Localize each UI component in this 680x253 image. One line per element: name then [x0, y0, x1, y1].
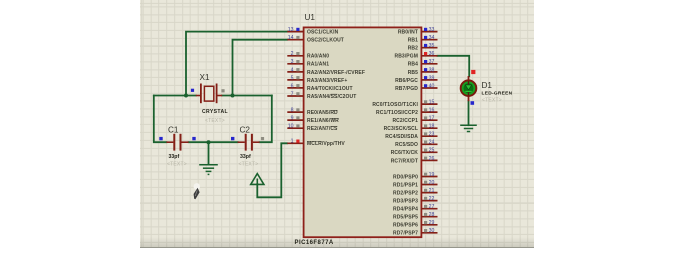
pin 34 (RB1) right side	[408, 35, 438, 44]
power terminal (VCC arrow on MCLR net)	[251, 174, 264, 185]
svg-text:RD6/PSP6: RD6/PSP6	[393, 223, 418, 229]
svg-text:<TEXT>: <TEXT>	[482, 98, 502, 104]
wire crystal left rail horizontal	[154, 95, 196, 97]
node marker: LED anode node marker	[471, 70, 475, 74]
LED D1 (LED-GREEN)	[461, 76, 477, 101]
pin 8 (RE0/AN5/RD) left side	[287, 108, 338, 117]
svg-text:CRYSTAL: CRYSTAL	[202, 109, 228, 115]
wire MCLR to power	[257, 143, 287, 197]
pin 39 (RB6/PGC) right side	[395, 75, 437, 84]
pin 18 (RC3/SCK/SCL) right side	[384, 124, 438, 133]
svg-text:RC3/SCK/SCL: RC3/SCK/SCL	[384, 126, 418, 132]
wire pin14 OSC2 to crystal right	[233, 40, 288, 96]
svg-text:21: 21	[429, 188, 435, 194]
svg-text:OSC1/CLKIN: OSC1/CLKIN	[307, 30, 339, 36]
pin 10 (RE2/AN7/CS) left side	[287, 124, 338, 133]
pin 28 (RD5/PSP5) right side	[393, 212, 437, 221]
pin 3 (RA1/AN1) left side	[287, 59, 329, 67]
pin 26 (RC7/RX/DT) right side	[391, 156, 438, 165]
svg-text:RC5/SDO: RC5/SDO	[395, 142, 418, 148]
svg-text:RB3/PGM: RB3/PGM	[395, 54, 418, 60]
junction node: pin13/crystal-left	[184, 94, 188, 98]
svg-text:9: 9	[291, 116, 294, 122]
svg-text:37: 37	[429, 59, 435, 65]
svg-text:30: 30	[429, 228, 435, 234]
pin 25 (RC6/TX/CK) right side	[391, 148, 438, 157]
svg-text:RD4/PSP4: RD4/PSP4	[393, 207, 418, 213]
ground symbol (LED)	[460, 125, 477, 131]
pin 22 (RD3/PSP3) right side	[393, 196, 437, 205]
svg-text:RC0/T1OSO/T1CKI: RC0/T1OSO/T1CKI	[372, 102, 418, 108]
svg-text:RD1/PSP1: RD1/PSP1	[393, 182, 418, 188]
svg-text:RD2/PSP2: RD2/PSP2	[393, 191, 418, 197]
svg-text:8: 8	[291, 108, 294, 114]
pin 36 (RB3/PGM) right side	[395, 51, 438, 60]
pin 7 (RA5/AN4/SS/C2OUT) left side	[287, 91, 356, 100]
svg-text:RB0/INT: RB0/INT	[398, 30, 418, 36]
svg-text:19: 19	[429, 172, 435, 178]
junction node: C1-C2/ground	[207, 140, 211, 144]
svg-text:20: 20	[429, 180, 435, 186]
svg-text:<TEXT>: <TEXT>	[205, 118, 225, 124]
svg-text:RB6/PGC: RB6/PGC	[395, 78, 418, 84]
svg-text:14: 14	[288, 35, 294, 41]
pin 1 (MCLR/Vpp/THV) left side	[287, 139, 345, 148]
svg-text:RB2: RB2	[408, 46, 418, 52]
svg-text:RC2/CCP1: RC2/CCP1	[392, 118, 418, 124]
sheet bottom shadow	[140, 237, 535, 247]
node marker: crystal left node marker	[191, 89, 194, 92]
svg-text:X1: X1	[200, 73, 210, 82]
pin 20 (RD1/PSP1) right side	[393, 180, 437, 189]
svg-text:RD0/PSP0: RD0/PSP0	[393, 174, 418, 180]
wire pin13 OSC1 to crystal left	[186, 32, 287, 96]
pin 17 (RC2/CCP1) right side	[392, 116, 437, 125]
svg-text:OSC2/CLKOUT: OSC2/CLKOUT	[307, 38, 344, 44]
svg-text:D1: D1	[482, 81, 493, 90]
node marker: C1 left node marker	[159, 137, 162, 140]
node marker: crystal right node marker	[221, 89, 224, 92]
wire crystal right rail horizontal	[222, 95, 272, 97]
svg-text:RC4/SDI/SDA: RC4/SDI/SDA	[385, 134, 418, 140]
svg-text:RD7/PSP7: RD7/PSP7	[393, 231, 418, 237]
node marker: C2 right node marker	[261, 137, 264, 140]
pin 14 (OSC2/CLKOUT) left side	[287, 35, 344, 44]
svg-text:22: 22	[429, 196, 435, 202]
svg-text:4: 4	[291, 67, 294, 73]
svg-text:13: 13	[288, 27, 294, 33]
svg-text:RE2/AN7/CS: RE2/AN7/CS	[307, 126, 338, 132]
svg-text:39: 39	[429, 75, 435, 81]
pin 35 (RB2) right side	[408, 43, 438, 52]
svg-text:RB5: RB5	[408, 70, 418, 76]
svg-text:33pf: 33pf	[169, 154, 180, 160]
svg-text:24: 24	[429, 140, 435, 146]
svg-text:1: 1	[291, 139, 294, 145]
pin 27 (RD4/PSP4) right side	[393, 204, 437, 213]
svg-text:28: 28	[429, 212, 435, 218]
node marker: LED cathode node marker	[471, 101, 475, 105]
pin 5 (RA3/AN3/VREF+) left side	[287, 75, 347, 84]
svg-text:6: 6	[291, 83, 294, 89]
pin 40 (RB7/PGD) right side	[395, 83, 437, 92]
svg-text:36: 36	[429, 51, 435, 57]
wire pin36 RB3 to LED	[438, 56, 470, 76]
wire LED to ground	[468, 101, 470, 125]
pin 4 (RA2/AN2/VREF-/CVREF) left side	[287, 67, 365, 76]
svg-text:26: 26	[429, 156, 435, 162]
svg-text:RE1/AN6/WR: RE1/AN6/WR	[307, 118, 339, 124]
svg-text:10: 10	[288, 124, 294, 130]
svg-text:RE0/AN5/RD: RE0/AN5/RD	[307, 110, 338, 116]
svg-text:RD5/PSP5: RD5/PSP5	[393, 215, 418, 221]
svg-text:C1: C1	[168, 126, 179, 135]
svg-text:RB7/PGD: RB7/PGD	[395, 86, 418, 92]
svg-text:RA1/AN1: RA1/AN1	[307, 62, 329, 68]
svg-text:RB1: RB1	[408, 38, 418, 44]
pin 30 (RD7/PSP7) right side	[393, 228, 437, 237]
pin 37 (RB4) right side	[408, 59, 438, 67]
pin 15 (RC0/T1OSO/T1CKI) right side	[372, 100, 437, 109]
crystal X1	[196, 84, 222, 104]
svg-text:RB4: RB4	[408, 62, 418, 68]
svg-text:MCLR/Vpp/THV: MCLR/Vpp/THV	[307, 141, 345, 147]
pin 2 (RA0/AN0) left side	[287, 51, 329, 60]
ground symbol (crystal caps)	[199, 165, 218, 175]
svg-text:15: 15	[429, 100, 435, 106]
svg-text:RA3/AN3/VREF+: RA3/AN3/VREF+	[307, 78, 347, 84]
svg-text:25: 25	[429, 148, 435, 154]
wire junction to ground	[208, 142, 210, 164]
svg-text:LED-GREEN: LED-GREEN	[482, 91, 513, 97]
svg-text:3: 3	[291, 59, 294, 65]
schematic sheet (grid background)	[140, 0, 535, 248]
svg-text:C2: C2	[240, 126, 251, 135]
pin 33 (RB0/INT) right side	[398, 27, 438, 36]
pencil cursor icon	[194, 183, 200, 199]
svg-text:34: 34	[429, 35, 435, 41]
pin 21 (RD2/PSP2) right side	[393, 188, 437, 197]
svg-text:23: 23	[429, 132, 435, 138]
node marker: C2 left node marker	[231, 137, 234, 140]
pin 24 (RC5/SDO) right side	[395, 140, 437, 149]
pin 38 (RB5) right side	[408, 67, 438, 76]
microcontroller U1 body (PIC16F877A)	[304, 27, 422, 237]
svg-text:17: 17	[429, 116, 435, 122]
svg-text:PIC16F877A: PIC16F877A	[295, 240, 334, 246]
svg-text:RA5/AN4/SS/C2OUT: RA5/AN4/SS/C2OUT	[307, 94, 356, 100]
svg-text:<TEXT>: <TEXT>	[167, 162, 187, 168]
pin 13 (OSC1/CLKIN) left side	[287, 27, 338, 36]
svg-text:29: 29	[429, 220, 435, 226]
node marker: C1 right node marker	[192, 137, 195, 140]
pin 29 (RD6/PSP6) right side	[393, 220, 437, 229]
svg-text:RC7/RX/DT: RC7/RX/DT	[391, 158, 418, 164]
svg-text:35: 35	[429, 43, 435, 49]
svg-text:33pf: 33pf	[240, 154, 251, 160]
svg-text:RA4/T0CKI/C1OUT: RA4/T0CKI/C1OUT	[307, 86, 353, 92]
svg-text:RC6/TX/CK: RC6/TX/CK	[391, 150, 419, 156]
svg-text:40: 40	[429, 83, 435, 89]
svg-text:RD3/PSP3: RD3/PSP3	[393, 199, 418, 205]
wire C2 right up to crystal rail	[260, 96, 272, 143]
svg-text:16: 16	[429, 108, 435, 114]
pin 19 (RD0/PSP0) right side	[393, 172, 437, 181]
svg-text:<TEXT>: <TEXT>	[239, 162, 259, 168]
svg-text:RA0/AN0: RA0/AN0	[307, 54, 329, 60]
svg-text:5: 5	[291, 75, 294, 81]
svg-text:U1: U1	[305, 13, 316, 22]
svg-text:18: 18	[429, 124, 435, 130]
svg-text:7: 7	[291, 91, 294, 97]
svg-text:RC1/T1OSI/CCP2: RC1/T1OSI/CCP2	[376, 110, 418, 116]
capacitor C1	[166, 134, 188, 151]
pin 9 (RE1/AN6/WR) left side	[287, 116, 339, 125]
pin 23 (RC4/SDI/SDA) right side	[385, 132, 437, 141]
svg-text:RA2/AN2/VREF-/CVREF: RA2/AN2/VREF-/CVREF	[307, 70, 365, 76]
pin 16 (RC1/T1OSI/CCP2) right side	[376, 108, 437, 117]
junction node: pin14/crystal-right	[231, 94, 235, 98]
pin 6 (RA4/T0CKI/C1OUT) left side	[287, 83, 352, 92]
wire C1 to C2	[189, 141, 238, 143]
svg-text:33: 33	[429, 27, 435, 33]
svg-text:2: 2	[291, 51, 294, 57]
wire left rail down to C1	[154, 96, 167, 143]
svg-text:38: 38	[429, 67, 435, 73]
capacitor C2	[238, 134, 260, 151]
svg-text:27: 27	[429, 204, 435, 210]
